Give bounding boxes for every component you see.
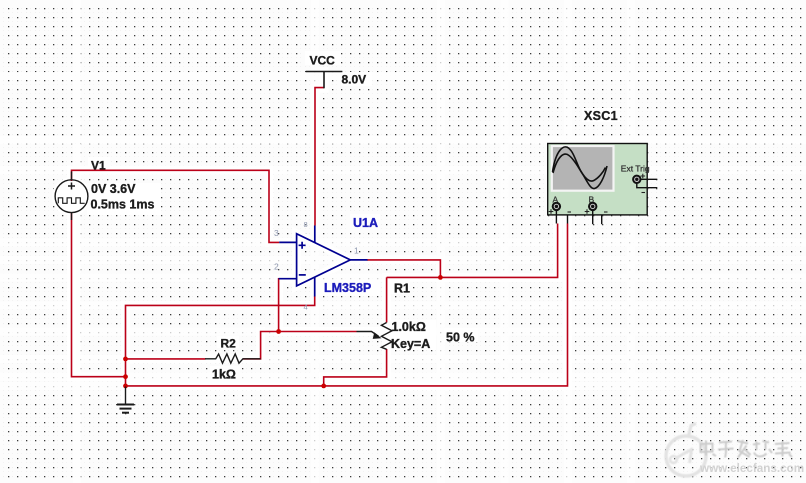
svg-text:R2: R2 (221, 337, 237, 351)
svg-text:Ext Trig: Ext Trig (621, 164, 650, 174)
svg-text:2: 2 (274, 262, 279, 272)
svg-text:V1: V1 (91, 158, 106, 172)
svg-text:1kΩ: 1kΩ (212, 368, 236, 382)
svg-text:R1: R1 (394, 282, 410, 296)
svg-text:LM358P: LM358P (324, 281, 371, 295)
svg-text:VCC: VCC (310, 53, 336, 67)
svg-text:0V 3.6V: 0V 3.6V (91, 182, 136, 196)
svg-text:8: 8 (304, 220, 308, 229)
svg-text:3: 3 (274, 228, 279, 238)
svg-text:www.elecfans.com: www.elecfans.com (699, 462, 804, 475)
svg-text:1: 1 (354, 246, 359, 256)
svg-text:1.0kΩ: 1.0kΩ (392, 320, 426, 334)
svg-text:0.5ms 1ms: 0.5ms 1ms (91, 198, 155, 212)
svg-text:8.0V: 8.0V (342, 73, 367, 87)
svg-text:Key=A: Key=A (391, 337, 430, 351)
svg-text:50 %: 50 % (446, 331, 475, 345)
svg-text:4: 4 (304, 303, 308, 312)
svg-text:U1A: U1A (353, 216, 378, 230)
svg-text:XSC1: XSC1 (584, 109, 618, 123)
